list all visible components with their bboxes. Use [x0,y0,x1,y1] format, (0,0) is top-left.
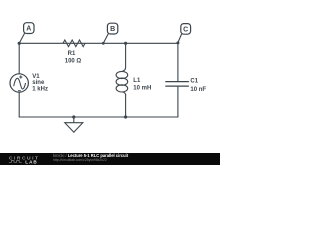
junction dot at ground [72,115,75,118]
wire bottom rail [19,116,178,118]
capacitor C1 [165,82,189,87]
junction dot at node B pointer [102,42,105,45]
node A [19,23,34,44]
wire left rail lower [18,92,20,117]
wire left rail upper [18,43,20,74]
junction dot at node C corner [176,41,179,44]
junction dot top of inductor branch [124,42,127,45]
junction dot bottom of inductor branch [124,115,127,118]
wire top rail A to B [19,42,103,44]
wire capacitor branch upper [177,43,179,81]
junction dot at node A corner [18,42,21,45]
footer bar [0,153,220,165]
voltage source V1 [10,74,28,92]
node C [178,24,191,43]
inductor L1 [116,67,128,96]
ground [65,117,83,132]
node B [103,23,118,43]
wire inductor branch upper [125,43,127,67]
wire capacitor branch lower [177,86,179,117]
wire top rail B to C [103,42,178,44]
svg-text:LAB: LAB [25,159,37,164]
wire inductor branch lower [125,95,127,118]
resistor R1 [63,40,85,47]
svg-text:http://circuitlab.com/c26ysn96: http://circuitlab.com/c26ysn96s2k22 [53,158,107,162]
footer logo squarewave [9,161,22,163]
